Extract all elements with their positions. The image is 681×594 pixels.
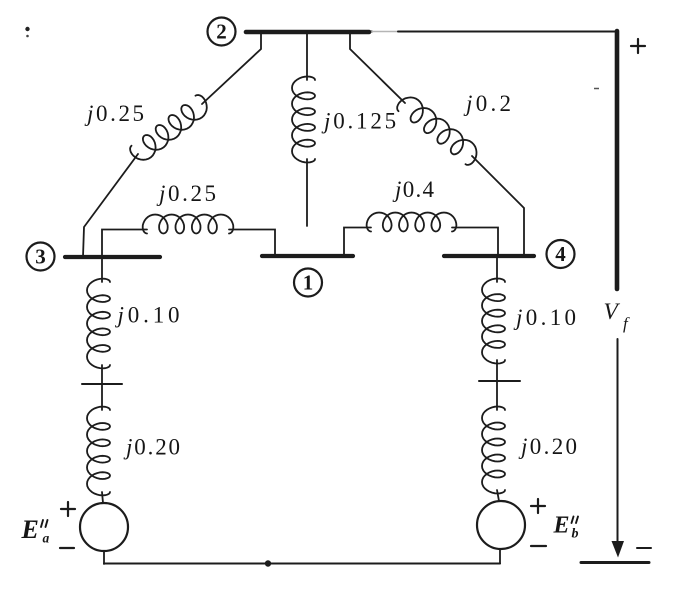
svg-text:2: 2 [216,20,227,44]
svg-text:3: 3 [35,245,46,269]
svg-text:j0.10: j0.10 [513,305,579,330]
svg-text:j0.20: j0.20 [518,434,579,459]
svg-text:b: b [572,527,579,542]
svg-text:1: 1 [303,271,314,295]
svg-text:E: E [553,513,570,539]
svg-text:j0.10: j0.10 [115,303,184,328]
svg-text:j0.125: j0.125 [321,109,399,134]
svg-text:j0.25: j0.25 [84,101,147,126]
svg-text:a: a [43,531,50,546]
svg-text:j0.20: j0.20 [123,435,182,460]
svg-text:4: 4 [555,242,566,266]
svg-text:j0.25: j0.25 [156,181,219,206]
svg-text:j0.2: j0.2 [463,91,514,116]
svg-text:j0.4: j0.4 [392,177,435,202]
svg-text:E: E [21,515,39,544]
